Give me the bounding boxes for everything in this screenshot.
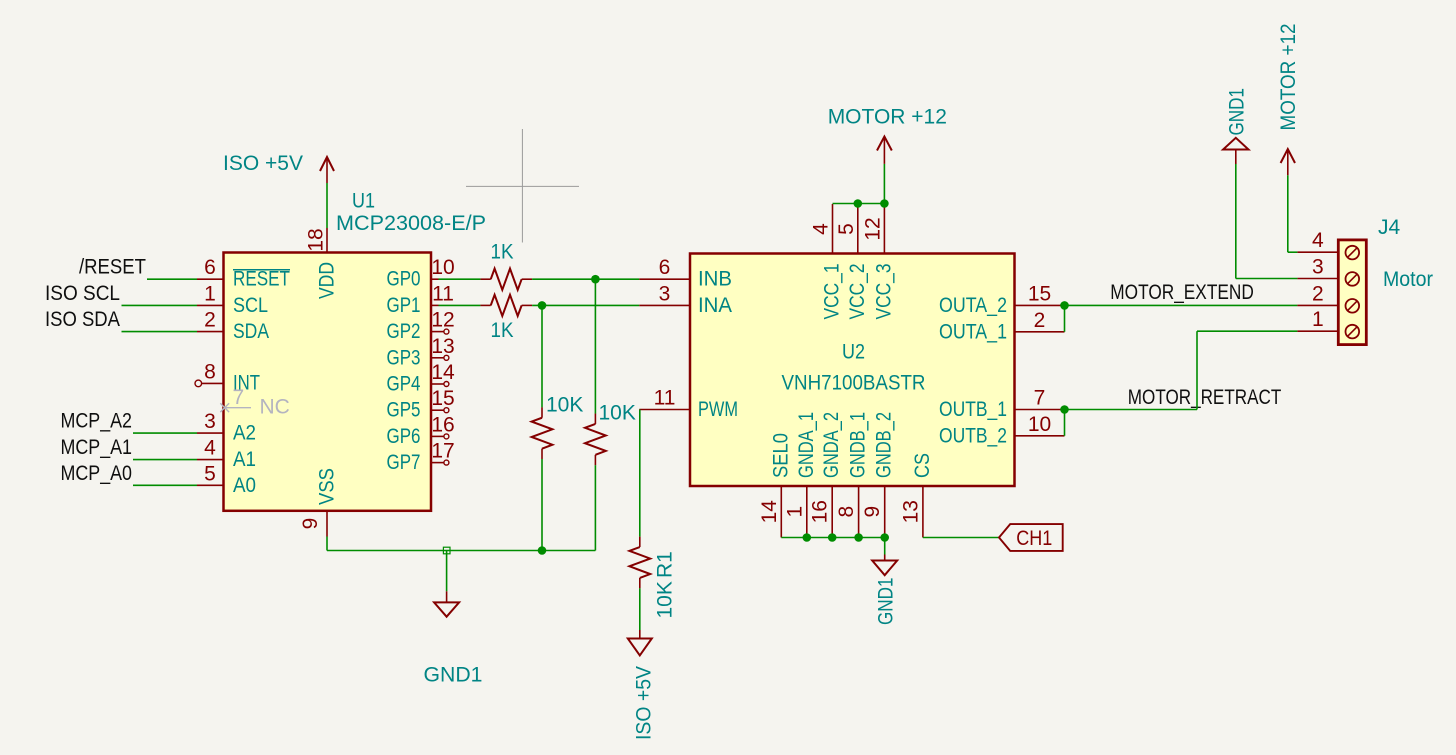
wire PWM down to R1	[639, 410, 641, 537]
svg-text:RESET: RESET	[233, 268, 290, 291]
wire ISO SDA to U1 pin 2	[122, 331, 198, 333]
svg-text:12: 12	[861, 217, 884, 240]
U1 pin 15 GP5	[431, 409, 444, 411]
svg-text:GNDA_2: GNDA_2	[820, 412, 843, 478]
wire OUTA_1 up to OUTA_2 net	[1064, 305, 1066, 331]
svg-text:OUTB_1: OUTB_1	[939, 398, 1007, 421]
U1 pin 18 VDD	[326, 228, 328, 253]
power symbol MOTOR +12 above U2	[883, 164, 885, 204]
svg-text:3: 3	[1312, 256, 1324, 279]
U1 pin 7 NC	[225, 407, 251, 409]
svg-text:GP3: GP3	[387, 346, 421, 369]
svg-text:5: 5	[835, 223, 858, 235]
U2 pin 14 SEL0	[780, 486, 782, 538]
resistor R1 10K	[629, 547, 650, 578]
ground GND1 under U2	[884, 538, 886, 555]
svg-text:PWM: PWM	[698, 398, 738, 421]
junction ground bus	[880, 533, 889, 542]
svg-text:15: 15	[1028, 282, 1051, 305]
svg-text:ISO SCL: ISO SCL	[45, 282, 120, 305]
wire MCP_A2 to U1 pin 3	[133, 432, 197, 434]
svg-text:3: 3	[659, 282, 671, 305]
svg-text:18: 18	[305, 228, 328, 251]
svg-text:GP4: GP4	[387, 373, 421, 396]
svg-text:VNH7100BASTR: VNH7100BASTR	[782, 371, 926, 394]
U2 pin 9 GNDB_2	[884, 486, 886, 538]
svg-text:13: 13	[899, 500, 922, 523]
svg-text:/RESET: /RESET	[79, 256, 146, 279]
svg-text:9: 9	[299, 518, 322, 530]
svg-text:11: 11	[432, 282, 454, 305]
svg-text:10: 10	[431, 256, 454, 279]
svg-text:15: 15	[431, 387, 454, 410]
cursor crosshair	[521, 129, 523, 243]
wire /RESET to U1 pin 6	[147, 278, 197, 280]
U2 pin 3 INA	[639, 304, 690, 306]
svg-text:GP6: GP6	[387, 425, 421, 448]
U1 pin 8 INT	[202, 382, 224, 384]
wire ISO SCL to U1 pin 1	[122, 304, 198, 306]
svg-text:11: 11	[654, 387, 676, 410]
svg-text:GP1: GP1	[387, 294, 421, 317]
svg-text:14: 14	[431, 361, 455, 384]
junction at bottom of first 10K	[538, 546, 547, 555]
wire VSS to ground bus	[326, 537, 328, 551]
wire MCP_A1 to U1 pin 4	[133, 459, 197, 461]
svg-text:Motor: Motor	[1383, 268, 1433, 291]
svg-text:GNDB_1: GNDB_1	[847, 412, 870, 478]
wire VCC bus	[833, 203, 885, 205]
svg-text:SCL: SCL	[233, 294, 268, 317]
svg-text:MCP_A1: MCP_A1	[61, 436, 133, 459]
svg-text:10: 10	[1028, 413, 1051, 436]
svg-text:VCC_1: VCC_1	[821, 264, 844, 320]
svg-text:VCC_2: VCC_2	[846, 264, 869, 320]
svg-text:MOTOR +12: MOTOR +12	[1277, 24, 1300, 131]
wire CS to CH1	[923, 537, 999, 539]
U1 pin 10 GP0	[431, 278, 439, 280]
svg-text:2: 2	[1034, 309, 1046, 332]
wire R1 to ISO +5V	[639, 588, 641, 630]
svg-text:1: 1	[783, 506, 806, 518]
svg-text:ISO +5V: ISO +5V	[223, 152, 303, 175]
connector J4 body	[1338, 240, 1366, 345]
svg-text:8: 8	[835, 506, 858, 518]
wire ground bus under U2	[781, 537, 884, 539]
U1 pin 2 SDA	[197, 331, 224, 333]
svg-text:VDD: VDD	[316, 262, 339, 299]
svg-text:16: 16	[809, 500, 832, 523]
global label CH1	[999, 524, 1063, 551]
svg-text:1K: 1K	[491, 241, 514, 264]
svg-text:6: 6	[204, 256, 216, 279]
svg-text:MCP_A2: MCP_A2	[61, 410, 133, 433]
U2 pin 2 OUTA_1	[1015, 331, 1065, 333]
U1 pin 13 GP3	[431, 357, 444, 359]
svg-text:J4: J4	[1378, 216, 1401, 239]
wire OUTB_2 up to OUTB_1 net	[1064, 410, 1066, 436]
U2 pin 13 CS	[922, 486, 924, 538]
junction on GP0 net	[591, 275, 600, 284]
svg-text:U2: U2	[842, 341, 865, 364]
U2 pin 11 PWM	[639, 409, 690, 411]
svg-text:4: 4	[810, 223, 833, 235]
junction VCC_2	[854, 199, 863, 208]
svg-text:MCP23008-E/P: MCP23008-E/P	[336, 212, 486, 235]
svg-text:7: 7	[1034, 387, 1046, 410]
svg-text:GNDA_1: GNDA_1	[795, 412, 818, 478]
U1 pin 17 GP7	[431, 462, 444, 464]
resistor 10K pulldown on GP0 net	[594, 279, 596, 413]
svg-text:GND1: GND1	[875, 578, 898, 626]
U2 pin 6 INB	[639, 278, 690, 280]
U2 pin 16 GNDA_2	[831, 486, 833, 538]
ground GND1 under U1	[446, 551, 448, 592]
U1 pin 5 A0	[197, 484, 224, 486]
junction VCC_3	[880, 199, 889, 208]
J4 pin 4	[1297, 251, 1338, 253]
U1 pin 9 VSS	[326, 511, 328, 537]
svg-text:SEL0: SEL0	[769, 433, 792, 478]
svg-text:A1: A1	[233, 448, 256, 471]
svg-text:MOTOR_RETRACT: MOTOR_RETRACT	[1128, 386, 1282, 409]
wire GND1 to J4 pin 3	[1235, 164, 1237, 279]
svg-text:R1: R1	[654, 551, 677, 578]
svg-text:9: 9	[861, 506, 884, 518]
svg-text:8: 8	[204, 360, 216, 383]
U1 pin 4 A1	[197, 459, 224, 461]
svg-text:MOTOR_EXTEND: MOTOR_EXTEND	[1110, 281, 1254, 304]
wire resistor to INB	[532, 278, 639, 280]
junction ground bus	[803, 533, 812, 542]
wire GP0 to resistor	[439, 278, 481, 280]
U1 pin 3 A2	[197, 432, 224, 434]
svg-text:SDA: SDA	[233, 320, 269, 343]
svg-text:A2: A2	[233, 422, 256, 445]
J4 pin 3	[1297, 278, 1338, 280]
U1 pin 6 RESET	[197, 278, 224, 280]
svg-text:6: 6	[659, 256, 671, 279]
U1 pin 11 GP1	[431, 304, 439, 306]
U2 pin 1 GNDA_1	[806, 486, 808, 538]
svg-text:OUTB_2: OUTB_2	[939, 424, 1007, 447]
U1 pin 1 SCL	[197, 304, 224, 306]
svg-text:7: 7	[233, 386, 245, 409]
IC U2 VNH7100BASTR body	[690, 254, 1015, 487]
junction ground bus	[828, 533, 837, 542]
wire MCP_A0 to U1 pin 5	[133, 484, 197, 486]
svg-text:A0: A0	[233, 474, 256, 497]
svg-text:GNDB_2: GNDB_2	[873, 412, 896, 478]
svg-text:1K: 1K	[491, 319, 514, 342]
svg-text:1: 1	[1312, 308, 1324, 331]
svg-text:VCC_3: VCC_3	[872, 264, 895, 320]
svg-text:12: 12	[431, 309, 454, 332]
U2 pin 7 OUTB_1	[1015, 409, 1065, 411]
svg-text:ISO SDA: ISO SDA	[45, 308, 120, 331]
svg-text:CS: CS	[911, 453, 934, 478]
wire VDD to ISO +5V	[326, 183, 328, 228]
wire GP1 to resistor	[439, 304, 481, 306]
svg-text:NC: NC	[260, 396, 290, 419]
svg-text:INB: INB	[698, 268, 732, 291]
svg-text:ISO +5V: ISO +5V	[633, 666, 656, 740]
svg-text:INA: INA	[698, 294, 732, 317]
svg-text:MCP_A0: MCP_A0	[61, 462, 133, 485]
dangling-wire square marker	[443, 547, 450, 554]
U2 pin 4 VCC_1	[832, 204, 834, 254]
svg-text:OUTA_1: OUTA_1	[939, 320, 1007, 343]
J4 pin 2	[1297, 304, 1338, 306]
svg-text:3: 3	[204, 410, 216, 433]
U2 pin 8 GNDB_1	[858, 486, 860, 538]
svg-text:16: 16	[431, 413, 454, 436]
wire MOTOR_RETRACT	[1065, 409, 1198, 411]
svg-text:GP5: GP5	[387, 399, 421, 422]
svg-text:GND1: GND1	[424, 664, 483, 687]
svg-text:GP7: GP7	[387, 451, 421, 474]
U1 pin 16 GP6	[431, 435, 444, 437]
resistor 1K on GP1	[491, 295, 522, 316]
svg-text:1: 1	[204, 282, 216, 305]
resistor 1K on GP0	[491, 269, 522, 290]
U1 pin 12 GP2	[431, 331, 444, 333]
junction OUTB net	[1060, 405, 1069, 414]
svg-text:GP0: GP0	[387, 268, 421, 291]
svg-text:4: 4	[1312, 229, 1324, 252]
svg-text:14: 14	[758, 500, 781, 524]
junction OUTA net	[1060, 301, 1069, 310]
junction on GP1 net	[538, 301, 547, 310]
svg-text:17: 17	[431, 440, 454, 463]
power symbol GND1 above J4	[1223, 138, 1248, 150]
wire MOTOR_EXTEND	[1065, 304, 1298, 306]
op-amp U1 MCP23008-E/P body	[224, 253, 432, 511]
junction ground bus	[854, 533, 863, 542]
svg-text:U1: U1	[352, 190, 375, 213]
svg-text:OUTA_2: OUTA_2	[939, 294, 1007, 317]
power symbol ISO +5V below R1	[639, 630, 641, 639]
svg-text:MOTOR +12: MOTOR +12	[828, 105, 947, 128]
wire resistor to INA	[532, 304, 639, 306]
svg-text:2: 2	[204, 309, 216, 332]
svg-text:GND1: GND1	[1226, 88, 1249, 136]
svg-text:10K: 10K	[546, 394, 583, 417]
svg-text:10K: 10K	[654, 581, 677, 618]
svg-text:5: 5	[204, 462, 216, 485]
wire MOTOR +12 to J4 pin 4	[1287, 175, 1289, 252]
U2 pin 10 OUTB_2	[1015, 435, 1065, 437]
svg-text:13: 13	[431, 335, 454, 358]
resistor 10K pulldown on GP1 net	[541, 305, 543, 407]
U2 pin 15 OUTA_2	[1015, 304, 1065, 306]
U1 pin 14 GP4	[431, 383, 444, 385]
svg-text:10K: 10K	[599, 402, 636, 425]
svg-text:4: 4	[204, 437, 216, 460]
U2 pin 12 VCC_3	[883, 204, 885, 254]
svg-text:2: 2	[1312, 282, 1324, 305]
power symbol MOTOR +12 above J4	[1281, 149, 1295, 163]
svg-text:GP2: GP2	[387, 320, 421, 343]
U2 pin 5 VCC_2	[857, 204, 859, 254]
svg-text:VSS: VSS	[316, 468, 339, 505]
svg-text:CH1: CH1	[1016, 527, 1052, 550]
J4 pin 1	[1297, 330, 1338, 332]
